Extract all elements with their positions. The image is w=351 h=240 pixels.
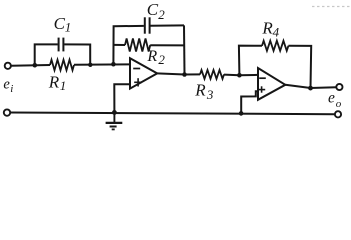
op-amp U2 — [258, 68, 285, 100]
node D: ground junction on bottom rail — [112, 110, 117, 115]
capacitor C1 — [58, 38, 60, 52]
U1 minus marker — [133, 68, 140, 70]
resistor R2 — [125, 39, 150, 52]
svg-text:1: 1 — [65, 20, 72, 35]
svg-text:1: 1 — [60, 78, 67, 93]
capacitor C2 — [144, 17, 146, 33]
op-amp U1 — [130, 58, 157, 88]
wire: R2 branch right stub — [150, 44, 184, 46]
node E: U1 output / feedback junction — [182, 72, 187, 77]
resistor R3 — [200, 70, 224, 79]
svg-text:C: C — [54, 14, 66, 33]
wire: input terminal to R1 — [11, 64, 50, 67]
svg-text:i: i — [10, 83, 13, 95]
svg-text:2: 2 — [158, 52, 165, 67]
wire: right riser of C2/R2 feedback branches — [183, 25, 186, 74]
wire: R3 to U2 inverting input — [224, 74, 258, 77]
scan artifact dotted line top right — [312, 6, 350, 8]
wire: R1 to op-amp U1 inverting input — [74, 63, 130, 65]
U2 minus marker — [259, 77, 266, 79]
wire: U1 output to R3 — [157, 73, 200, 74]
wire: R4 left riser — [239, 46, 262, 76]
wire: U1 non-inverting input to ground riser — [114, 84, 130, 112]
wire: C1 left riser — [35, 44, 58, 65]
wire: left riser of C2/R2 feedback branches — [113, 26, 143, 64]
svg-text:o: o — [336, 98, 342, 110]
output terminal top (e_o) — [336, 84, 342, 90]
node A: C1 left junction — [33, 63, 38, 68]
output terminal bottom — [335, 111, 341, 117]
node F: U2 inverting input junction — [237, 73, 242, 78]
node C: inverting input junction of U1 — [111, 62, 116, 67]
wire: bottom rail — [10, 113, 335, 115]
wire: U2 output to output terminal — [285, 85, 336, 88]
U1 plus marker — [134, 81, 142, 83]
svg-text:R: R — [48, 73, 60, 92]
resistor R1 — [50, 60, 74, 70]
wire: U2 non-inverting input to bottom rail — [241, 91, 258, 113]
ground — [113, 112, 115, 122]
wire: R4 right riser to output node — [288, 46, 311, 88]
node B: C1 right junction — [88, 63, 92, 67]
svg-text:R: R — [146, 48, 157, 65]
input terminal top (e_i +) — [5, 63, 11, 69]
wire: R2 branch left stub — [114, 44, 126, 46]
svg-text:3: 3 — [206, 87, 214, 102]
U2 plus marker — [258, 89, 265, 91]
svg-text:C: C — [147, 0, 159, 19]
svg-text:2: 2 — [158, 7, 165, 22]
node H: output / feedback junction — [308, 86, 313, 91]
input terminal bottom — [4, 109, 10, 115]
svg-text:e: e — [328, 89, 335, 106]
wire: C1 right riser — [64, 44, 90, 64]
svg-text:4: 4 — [273, 25, 280, 40]
svg-text:R: R — [261, 18, 273, 37]
resistor R4 — [262, 41, 288, 51]
node G: U2 non-inverting ground junction — [239, 111, 244, 116]
wire: C2 right to feedback right riser — [151, 24, 185, 26]
svg-text:R: R — [194, 81, 206, 100]
